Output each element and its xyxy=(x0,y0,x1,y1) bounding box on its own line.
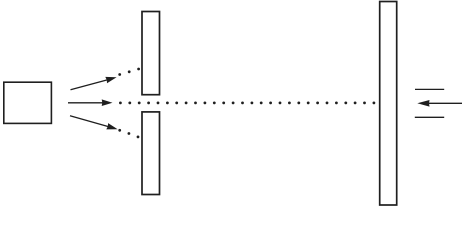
dotted axial beam through slit to screen xyxy=(119,102,375,105)
slit barrier top plate xyxy=(142,12,160,95)
arrow middle (axial source ray) xyxy=(68,99,113,106)
arrow upper (source ray up-right) xyxy=(71,77,117,90)
arrow right (beam entering from right) xyxy=(417,100,462,107)
line right lower xyxy=(415,116,444,118)
arrow lower (source ray down-right) xyxy=(70,116,118,130)
dotted ray upper (blocked at barrier) xyxy=(118,68,140,76)
line right upper xyxy=(415,88,444,90)
dotted ray lower (blocked at barrier) xyxy=(118,129,139,138)
source box xyxy=(4,82,52,123)
slit barrier bottom plate xyxy=(142,112,160,195)
detector screen xyxy=(380,2,397,206)
